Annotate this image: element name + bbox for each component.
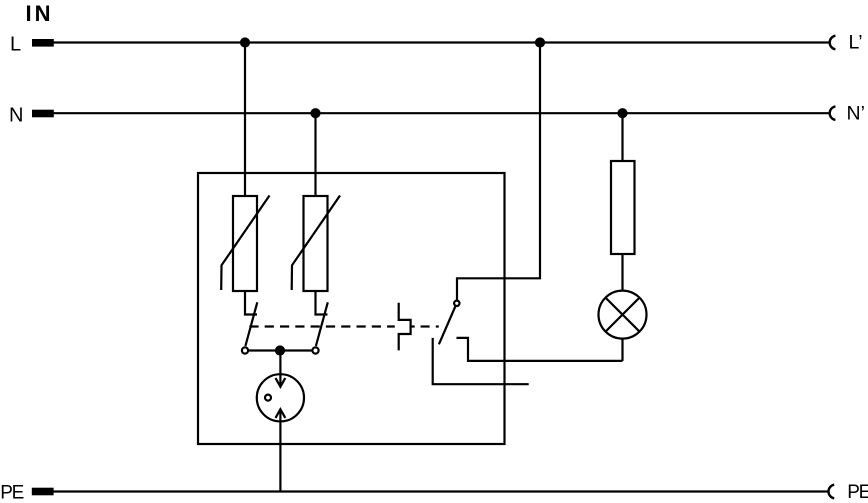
terminal PE (input) <box>32 488 54 496</box>
connector N' <box>830 106 836 120</box>
indicator lamp H1 <box>599 291 647 339</box>
resistor R1 <box>611 161 635 254</box>
wire L to varistor RV1 <box>244 43 246 197</box>
changeover switch contact 2 wire to lamp <box>457 338 623 361</box>
linkage actuator symbol <box>399 303 411 351</box>
svg-text:PE: PE <box>0 482 23 503</box>
node on L at switch branch <box>535 37 545 47</box>
wire N line <box>53 112 830 114</box>
changeover switch S1 blade <box>439 307 455 345</box>
varistor RV1 <box>221 196 269 292</box>
device enclosure box <box>198 173 505 444</box>
node on N at lamp branch <box>617 108 627 118</box>
node on N at varistor branch <box>310 108 320 118</box>
wire N to varistor RV2 <box>314 113 316 196</box>
node on L at varistor branch <box>240 37 250 47</box>
terminal N (input) <box>32 110 54 118</box>
wire L line <box>53 41 830 43</box>
wire L branch to changeover switch <box>457 43 540 301</box>
wire disconnector bus <box>248 349 312 351</box>
spark gap arrester (N-PE) <box>257 351 304 492</box>
terminal L (input) <box>32 39 54 47</box>
thermal disconnector F2 <box>312 291 327 354</box>
connector PE' <box>828 485 834 499</box>
connector L' <box>830 36 836 50</box>
changeover switch contact 1 with stub wire <box>433 338 529 384</box>
svg-text:IN: IN <box>26 1 54 26</box>
changeover switch S1 common terminal <box>454 301 459 306</box>
dashed mechanical linkage line <box>249 325 438 327</box>
wire resistor to lamp <box>621 254 623 291</box>
svg-text:L’: L’ <box>849 32 863 54</box>
svg-text:L: L <box>10 33 21 55</box>
thermal disconnector F1 <box>242 291 257 354</box>
wire N to resistor R1 <box>621 113 623 161</box>
wire lamp to switch contact 2 <box>621 339 623 361</box>
svg-text:PE: PE <box>847 482 868 503</box>
wire PE line <box>53 490 829 492</box>
node disconnector bus junction <box>275 345 285 355</box>
svg-text:N: N <box>9 104 23 126</box>
svg-text:N’: N’ <box>847 103 865 125</box>
varistor RV2 <box>292 196 340 292</box>
